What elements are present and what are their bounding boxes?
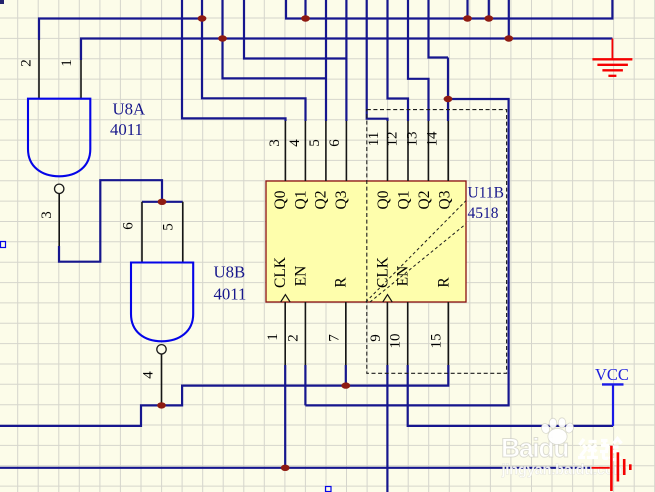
no-ERC marker left edge [1, 242, 6, 248]
svg-text:13: 13 [404, 132, 420, 147]
svg-text:Q3: Q3 [333, 190, 350, 209]
svg-text:4518: 4518 [468, 205, 499, 222]
IC U11B body [266, 181, 466, 302]
junction U8B inputs [158, 199, 167, 205]
wire vertical into pin5 [325, 0, 327, 121]
pin U11 7 [345, 302, 347, 365]
svg-text:2: 2 [285, 334, 301, 342]
NAND gate U8A [28, 99, 90, 194]
pin U11 13 [427, 121, 429, 181]
svg-text:1: 1 [265, 333, 281, 341]
junction bottom bus [281, 465, 290, 471]
wire to IC pin4 [202, 0, 306, 121]
svg-text:EN: EN [292, 266, 309, 287]
wire net B (U8A pin1 long horizontal) [81, 39, 612, 61]
wire to IC pin14 [429, 0, 449, 121]
svg-text:U11B: U11B [468, 185, 504, 202]
wire to IC pin5 [223, 0, 327, 78]
svg-text:14: 14 [424, 131, 440, 147]
svg-text:15: 15 [428, 334, 444, 349]
svg-text:jingyan.baidu.com: jingyan.baidu.com [501, 463, 627, 479]
svg-text:U8B: U8B [214, 263, 246, 282]
svg-text:4011: 4011 [214, 285, 247, 304]
svg-text:EN: EN [395, 266, 412, 287]
wire U8B output net to left edge and to IC R pin [0, 365, 448, 426]
pin U11 4 [304, 121, 306, 181]
pin U11 3 [284, 121, 286, 181]
wire U8B input tie [142, 201, 183, 203]
VCC power symbol [595, 365, 629, 426]
wire to IC pin3 [182, 0, 286, 121]
pin U11 11 [387, 121, 389, 181]
pin U8B.5 [182, 202, 184, 263]
svg-text:Q1: Q1 [293, 191, 310, 210]
svg-text:3: 3 [39, 211, 55, 219]
pin U11 1 [284, 302, 286, 365]
pin U11 15 [447, 302, 449, 365]
wire stub A right 1 [466, 0, 468, 19]
svg-text:Q3: Q3 [437, 190, 454, 209]
selection dashed diagonal 1 [366, 201, 466, 302]
svg-text:4: 4 [287, 139, 303, 147]
wire to IC pin11 [367, 0, 388, 121]
svg-text:4011: 4011 [110, 120, 143, 139]
svg-text:R: R [435, 277, 452, 288]
wire stub to net A [304, 0, 306, 19]
svg-text:VCC: VCC [595, 365, 629, 384]
junction U8B output [157, 402, 166, 408]
svg-text:5: 5 [307, 139, 323, 147]
junction net A at U8A.2 column [198, 15, 207, 21]
junction net B right [504, 35, 513, 41]
wire to IC pin6 horizontal [244, 0, 346, 59]
junction net A stub 2 [484, 15, 493, 21]
svg-text:2: 2 [18, 59, 34, 67]
wire IC pin2 down [304, 365, 306, 405]
svg-text:10: 10 [387, 334, 403, 349]
wire stub to net B [508, 0, 510, 39]
junction R pin net [341, 382, 350, 388]
wire net A left (U8A pin2 to junction) [39, 19, 202, 41]
wire IC pin1 down to bottom bus [284, 365, 286, 468]
pin U8B.4 output [161, 354, 163, 405]
junction net B left [218, 35, 227, 41]
wire bottom bus [0, 467, 592, 469]
ground symbol bottom right (rotated) [592, 446, 631, 491]
svg-text:1: 1 [59, 59, 75, 67]
svg-text:U8A: U8A [113, 99, 146, 118]
pin U11 9 [386, 302, 388, 365]
svg-text:Q2: Q2 [416, 191, 433, 210]
pin U11 10 [407, 302, 409, 365]
wire IC pin9 down off bottom [386, 365, 388, 492]
svg-text:6: 6 [327, 139, 343, 147]
pin U11 5 [325, 121, 327, 181]
wire U8A output detour to U8B inputs [59, 180, 162, 262]
pin U11 14 [447, 121, 449, 181]
svg-text:5: 5 [160, 223, 176, 231]
pin U8A.2 [38, 40, 40, 99]
svg-text:Q1: Q1 [396, 191, 413, 210]
svg-text:Q2: Q2 [313, 191, 330, 210]
pin U11 2 [304, 302, 306, 365]
svg-text:R: R [332, 277, 349, 288]
wire IC pin7 down to junction [345, 365, 347, 386]
pin U11 12 [407, 121, 409, 181]
wire to IC pin13 [408, 0, 429, 121]
svg-text:CLK: CLK [272, 256, 289, 288]
svg-text:3: 3 [267, 139, 283, 147]
junction pin14 node [444, 96, 453, 102]
svg-text:Q0: Q0 [272, 190, 289, 209]
clock mark left CLK [281, 295, 290, 302]
svg-text:4: 4 [140, 371, 156, 379]
junction net A right [301, 15, 310, 21]
svg-text:11: 11 [366, 132, 382, 146]
selection dashed diagonal 2 [370, 224, 466, 302]
pin U8B.6 [141, 202, 143, 263]
wire vertical into pin6 [345, 0, 347, 121]
svg-text:12: 12 [384, 132, 400, 147]
NAND gate U8B [131, 263, 193, 354]
corner artifact [0, 0, 4, 4]
wire stub A right 2 [488, 0, 490, 19]
junction net A stub 1 [463, 15, 472, 21]
pin U8A.1 [80, 60, 82, 99]
wire pin14 node to right vertical and IC pin2 [305, 99, 508, 405]
watermark Baidu Jingyan [501, 418, 627, 479]
svg-text:Q0: Q0 [375, 190, 392, 209]
svg-text:6: 6 [120, 222, 136, 230]
pin U11 6 [345, 121, 347, 181]
no-ERC marker bottom middle [326, 487, 332, 492]
svg-text:9: 9 [368, 334, 384, 342]
wire IC pin10 down to VCC rail [408, 365, 613, 426]
svg-text:CLK: CLK [374, 256, 391, 288]
wire to IC pin12 [388, 0, 409, 121]
clock mark right CLK [383, 295, 392, 302]
wire net A right (top horizontal with up stubs) [286, 0, 612, 19]
ground symbol top right [592, 39, 632, 76]
selection dashed rectangle [367, 110, 507, 374]
svg-text:7: 7 [326, 334, 342, 342]
pin U8A.3 output [58, 194, 60, 247]
